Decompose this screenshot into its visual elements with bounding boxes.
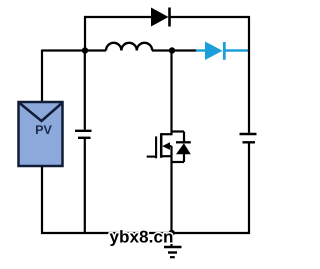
capacitor C1 (input): [75, 131, 92, 138]
body stub with arrow: [166, 145, 172, 147]
wire mid bus: PV corner to inductor: [42, 49, 106, 51]
wire ground bus: [41, 232, 250, 234]
body diode triangle: [176, 143, 191, 154]
transistor Q1 (N-MOSFET): [147, 132, 191, 163]
gate bar: [155, 136, 157, 158]
wire left riser x=85 from top bus to mid bus: [84, 16, 86, 51]
wire mid bus: inductor to blue wire: [152, 49, 197, 51]
diode D1 (top boost diode): [151, 8, 170, 27]
body diode branch upper: [183, 132, 185, 143]
channel bar: [160, 133, 163, 158]
node junction ground (172,233): [169, 230, 175, 236]
wire blue anode lead of D2: [196, 49, 206, 51]
wire PV bottom lead to ground bus: [41, 166, 43, 234]
gate lead: [147, 156, 156, 158]
source stub: [161, 155, 172, 157]
capacitor C2 (output): [240, 134, 257, 142]
wire input cap riser x=84.5 (node to C1): [84, 51, 86, 130]
body diode branch lower: [183, 154, 185, 163]
node junction switch node (172,50.5): [169, 47, 175, 53]
ground: [164, 233, 182, 257]
wire source lead x=171.5 to ground bus: [170, 156, 172, 234]
wire drain lead x=171.5: [170, 51, 172, 136]
wire right riser x=249 bottom section: [248, 144, 250, 235]
wire blue cathode lead of D2: [225, 49, 249, 51]
wire top bus left segment (anode side of D1): [85, 16, 152, 18]
body diode top link: [172, 130, 185, 132]
wire C1 bottom lead to ground bus: [84, 139, 86, 234]
body diode bottom link: [172, 161, 185, 163]
node junction input (85,50.5): [82, 47, 88, 53]
wire left input riser x=42: mid bus to PV top: [41, 50, 43, 103]
watermark ybx8.cn: [110, 230, 173, 246]
wire right riser x=249 top section: [248, 17, 250, 133]
diode D2 (blue output diode): [205, 42, 224, 61]
body-source link: [170, 146, 172, 156]
drain stub: [161, 133, 172, 135]
body diode cathode bar: [176, 141, 191, 143]
inductor L1: [106, 43, 152, 51]
PV module symbol: [19, 102, 63, 166]
wire top bus right segment (cathode side of D1): [169, 16, 250, 18]
